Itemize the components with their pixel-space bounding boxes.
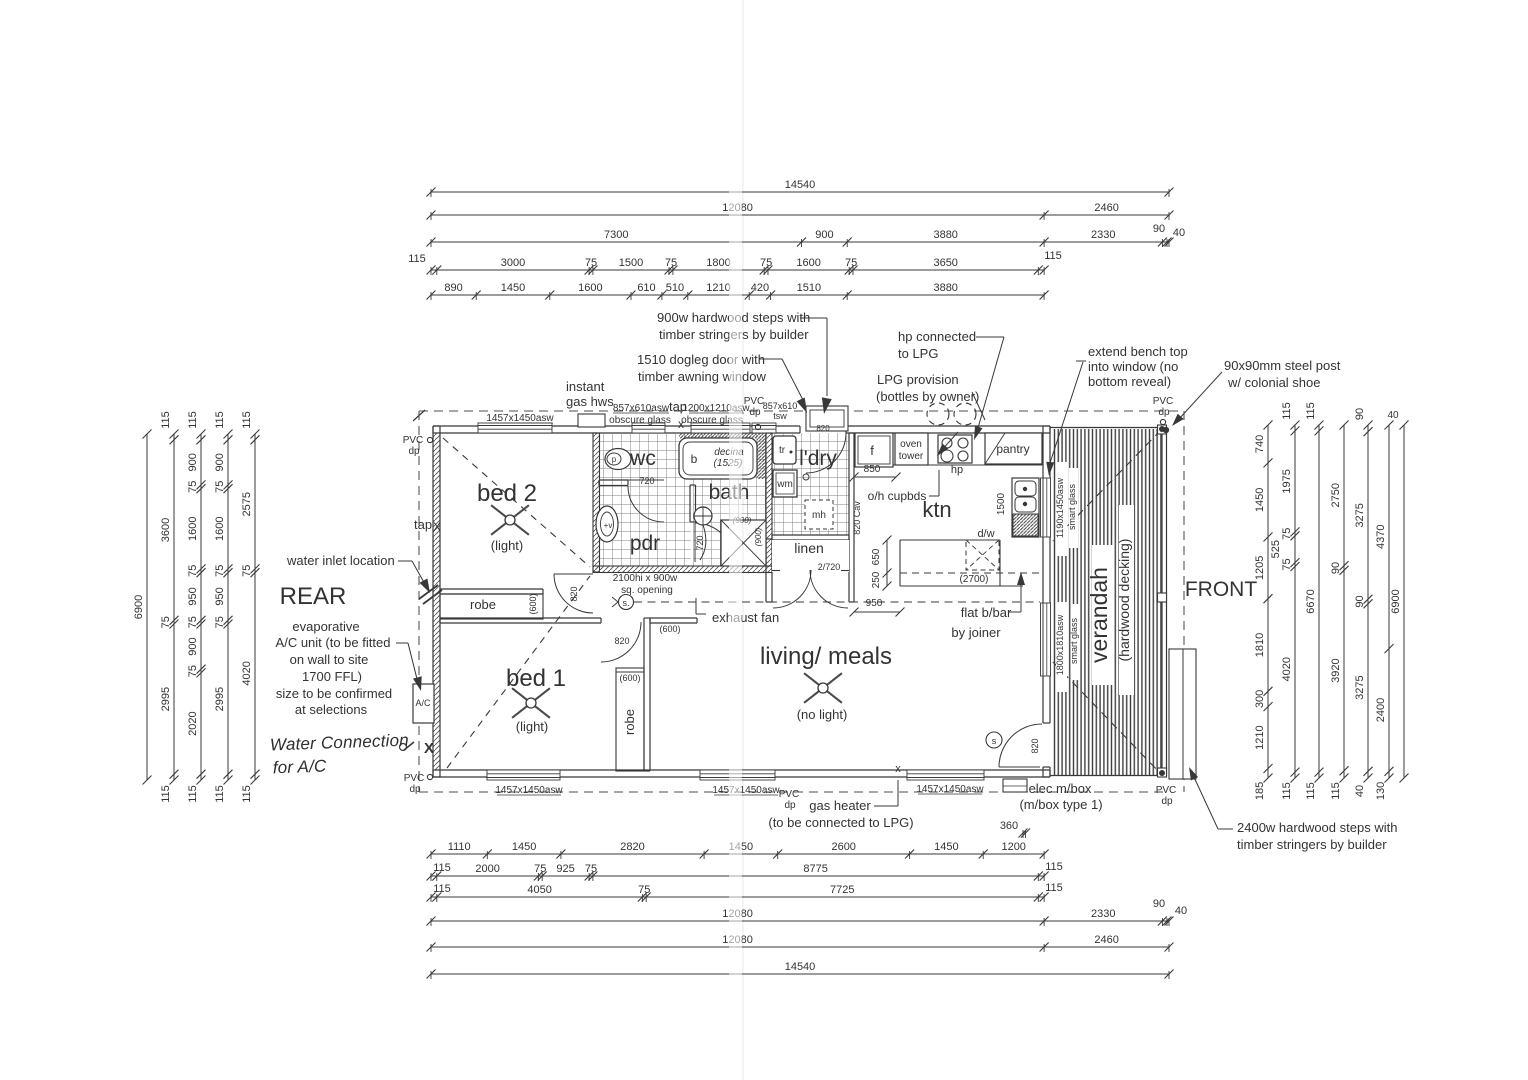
svg-text:14540: 14540 [785, 179, 816, 191]
svg-text:PVC: PVC [403, 435, 424, 446]
svg-text:A/C: A/C [415, 698, 431, 708]
svg-text:40: 40 [1173, 227, 1185, 239]
svg-text:115: 115 [433, 883, 451, 895]
svg-text:PVC: PVC [404, 773, 425, 784]
svg-text:dp: dp [409, 784, 421, 795]
svg-text:75: 75 [1281, 558, 1293, 570]
svg-text:890: 890 [444, 282, 462, 294]
svg-text:14540: 14540 [785, 961, 816, 973]
svg-text:by joiner: by joiner [951, 625, 1001, 640]
svg-text:x: x [895, 763, 901, 775]
svg-text:950: 950 [866, 598, 883, 609]
svg-text:REAR: REAR [280, 583, 347, 610]
svg-text:1600: 1600 [796, 257, 820, 269]
svg-text:instant: instant [566, 379, 605, 394]
svg-text:3880: 3880 [933, 282, 957, 294]
svg-text:2575: 2575 [241, 492, 253, 516]
svg-text:2460: 2460 [1094, 934, 1118, 946]
svg-text:900: 900 [214, 453, 226, 471]
svg-text:115: 115 [1045, 861, 1063, 873]
svg-text:115: 115 [408, 253, 426, 265]
svg-text:75: 75 [214, 481, 226, 493]
svg-text:gas heater: gas heater [809, 798, 871, 813]
svg-text:3000: 3000 [501, 257, 525, 269]
svg-text:l'dry: l'dry [799, 447, 837, 470]
svg-text:1700 FFL): 1700 FFL) [302, 669, 362, 684]
svg-text:A/C unit (to be fitted: A/C unit (to be fitted [276, 635, 391, 650]
svg-text:75: 75 [241, 565, 253, 577]
svg-text:smart glass: smart glass [1069, 617, 1079, 664]
svg-text:2400: 2400 [1375, 698, 1387, 722]
svg-text:2400w hardwood steps with: 2400w hardwood steps with [1237, 820, 1397, 835]
svg-text:900: 900 [815, 229, 833, 241]
svg-text:75: 75 [187, 616, 199, 628]
svg-text:3920: 3920 [1330, 658, 1342, 682]
svg-text:525: 525 [1270, 540, 1282, 558]
svg-text:510: 510 [666, 282, 684, 294]
svg-text:PVC: PVC [1153, 396, 1174, 407]
svg-text:115: 115 [160, 411, 172, 429]
svg-text:+v: +v [604, 521, 613, 530]
svg-text:to LPG: to LPG [898, 346, 938, 361]
svg-text:dp: dp [749, 407, 761, 418]
svg-text:857x610asw: 857x610asw [613, 403, 670, 414]
svg-text:75: 75 [585, 257, 597, 269]
svg-text:857x610: 857x610 [763, 401, 798, 411]
svg-text:1457x1450asw: 1457x1450asw [486, 413, 554, 424]
svg-text:740: 740 [1254, 435, 1266, 453]
svg-text:75: 75 [187, 665, 199, 677]
svg-text:for A/C: for A/C [272, 756, 327, 777]
svg-text:tower: tower [899, 451, 924, 462]
svg-text:4370: 4370 [1375, 525, 1387, 549]
svg-text:130: 130 [1375, 782, 1387, 800]
svg-text:75: 75 [187, 565, 199, 577]
svg-text:LPG provision: LPG provision [877, 372, 959, 387]
svg-text:115: 115 [1281, 402, 1293, 420]
svg-text:exhaust fan: exhaust fan [712, 610, 779, 625]
svg-text:75: 75 [638, 884, 650, 896]
svg-text:living/ meals: living/ meals [760, 643, 892, 670]
svg-text:820: 820 [569, 586, 579, 601]
svg-text:b: b [691, 452, 698, 466]
svg-text:w/ colonial shoe: w/ colonial shoe [1227, 375, 1321, 390]
svg-text:verandah: verandah [1086, 567, 1112, 663]
svg-text:1450: 1450 [1254, 488, 1266, 512]
svg-text:into window (no: into window (no [1088, 359, 1178, 374]
svg-text:90: 90 [1153, 223, 1165, 235]
svg-text:115: 115 [160, 785, 172, 803]
svg-text:610: 610 [637, 282, 655, 294]
svg-text:8775: 8775 [803, 863, 827, 875]
svg-text:40: 40 [1387, 410, 1399, 421]
svg-text:1457x1450asw: 1457x1450asw [712, 785, 780, 796]
svg-text:sq. opening: sq. opening [621, 585, 673, 596]
svg-text:115: 115 [187, 411, 199, 429]
svg-text:3650: 3650 [933, 257, 957, 269]
svg-text:(600): (600) [659, 624, 680, 634]
svg-text:2820: 2820 [620, 841, 644, 853]
svg-text:90: 90 [1354, 408, 1366, 420]
svg-text:6900: 6900 [1390, 589, 1402, 613]
svg-text:robe: robe [622, 709, 637, 735]
svg-text:115: 115 [187, 785, 199, 803]
svg-text:1810: 1810 [1254, 633, 1266, 657]
svg-text:gas hws: gas hws [566, 394, 614, 409]
svg-text:75: 75 [187, 481, 199, 493]
svg-text:tr: tr [779, 445, 786, 456]
svg-text:X: X [433, 520, 441, 534]
svg-text:900: 900 [187, 637, 199, 655]
svg-text:o/h cupbds: o/h cupbds [868, 489, 927, 503]
svg-text:115: 115 [214, 411, 226, 429]
svg-text:1600: 1600 [187, 517, 199, 541]
svg-text:115: 115 [1281, 782, 1293, 800]
svg-text:90x90mm steel post: 90x90mm steel post [1224, 358, 1341, 373]
svg-text:6900: 6900 [133, 595, 145, 619]
svg-text:4020: 4020 [241, 661, 253, 685]
svg-text:115: 115 [214, 785, 226, 803]
svg-text:2020: 2020 [187, 711, 199, 735]
svg-text:650: 650 [871, 548, 882, 565]
svg-text:820: 820 [614, 636, 629, 646]
svg-text:on wall to site: on wall to site [290, 652, 369, 667]
svg-text:tsw: tsw [773, 411, 787, 421]
svg-text:2/720: 2/720 [818, 562, 841, 572]
svg-text:s.: s. [622, 598, 629, 608]
svg-text:bed 2: bed 2 [477, 480, 537, 507]
svg-text:1205: 1205 [1254, 556, 1266, 580]
svg-text:X: X [424, 740, 434, 757]
svg-text:2995: 2995 [214, 687, 226, 711]
svg-text:ktn: ktn [922, 497, 951, 522]
svg-text:850: 850 [864, 464, 881, 475]
svg-text:75: 75 [214, 565, 226, 577]
svg-text:PVC: PVC [779, 789, 800, 800]
svg-text:75: 75 [845, 257, 857, 269]
svg-text:(light): (light) [491, 538, 524, 553]
svg-text:water inlet location: water inlet location [286, 553, 395, 568]
svg-text:1510 dogleg door with: 1510 dogleg door with [637, 352, 765, 367]
svg-text:size to be confirmed: size to be confirmed [276, 686, 392, 701]
svg-text:1457x1450asw: 1457x1450asw [495, 785, 563, 796]
svg-text:720: 720 [639, 476, 654, 486]
svg-text:dp: dp [408, 446, 420, 457]
svg-text:(bottles by owner): (bottles by owner) [876, 389, 979, 404]
svg-text:820: 820 [816, 424, 830, 433]
svg-text:90: 90 [1354, 595, 1366, 607]
svg-text:115: 115 [1045, 882, 1063, 894]
svg-text:75: 75 [214, 616, 226, 628]
svg-text:90: 90 [1330, 562, 1342, 574]
svg-text:1975: 1975 [1281, 469, 1293, 493]
svg-text:(2700): (2700) [960, 574, 989, 585]
svg-text:3275: 3275 [1354, 675, 1366, 699]
svg-text:1800: 1800 [706, 257, 730, 269]
svg-text:115: 115 [1044, 250, 1062, 262]
svg-text:bottom reveal): bottom reveal) [1088, 374, 1171, 389]
svg-text:2750: 2750 [1330, 483, 1342, 507]
svg-text:oven: oven [900, 439, 922, 450]
svg-text:(light): (light) [516, 719, 549, 734]
svg-text:(to be connected to LPG): (to be connected to LPG) [768, 815, 913, 830]
svg-text:1457x1450asw: 1457x1450asw [916, 784, 984, 795]
svg-text:90: 90 [1153, 898, 1165, 910]
svg-text:115: 115 [1330, 782, 1342, 800]
svg-text:115: 115 [241, 785, 253, 803]
svg-text:185: 185 [1254, 782, 1266, 800]
svg-text:linen: linen [794, 540, 824, 556]
svg-text:wc: wc [629, 447, 656, 470]
svg-text:820 Cav: 820 Cav [852, 501, 862, 535]
svg-text:s: s [992, 736, 997, 746]
svg-text:smart glass: smart glass [1067, 483, 1077, 530]
svg-text:p: p [612, 455, 617, 464]
svg-text:300: 300 [1254, 690, 1266, 708]
svg-text:at selections: at selections [295, 702, 368, 717]
svg-text:250: 250 [871, 571, 882, 588]
svg-text:75: 75 [585, 863, 597, 875]
svg-text:bed 1: bed 1 [506, 665, 566, 692]
svg-text:2330: 2330 [1091, 229, 1115, 241]
svg-text:dp: dp [784, 800, 796, 811]
svg-text:flat b/bar: flat b/bar [961, 605, 1012, 620]
svg-text:(600): (600) [528, 593, 538, 614]
svg-text:d/w: d/w [977, 528, 994, 540]
svg-text:mh: mh [812, 510, 826, 521]
svg-text:900: 900 [187, 453, 199, 471]
svg-text:950: 950 [187, 587, 199, 605]
svg-text:4020: 4020 [1281, 657, 1293, 681]
svg-text:3600: 3600 [160, 518, 172, 542]
svg-text:1210: 1210 [706, 282, 730, 294]
svg-text:dp: dp [1158, 407, 1170, 418]
svg-text:2460: 2460 [1094, 202, 1118, 214]
svg-text:75: 75 [760, 257, 772, 269]
svg-text:2100hi x 900w: 2100hi x 900w [613, 573, 678, 584]
svg-text:f: f [870, 443, 874, 458]
svg-text:timber stringers by builder: timber stringers by builder [1237, 837, 1387, 852]
svg-text:925: 925 [556, 863, 574, 875]
svg-text:1800x1810asw: 1800x1810asw [1055, 614, 1065, 675]
svg-text:evaporative: evaporative [292, 619, 359, 634]
svg-text:pdr: pdr [630, 532, 660, 555]
svg-text:1500: 1500 [619, 257, 643, 269]
svg-text:40: 40 [1175, 905, 1187, 917]
svg-text:1190x1450asw: 1190x1450asw [1055, 478, 1065, 538]
svg-text:PVC: PVC [1156, 785, 1177, 796]
svg-text:elec m/box: elec m/box [1029, 781, 1092, 796]
svg-text:tap: tap [414, 517, 432, 532]
svg-text:1600: 1600 [214, 517, 226, 541]
svg-text:1110: 1110 [448, 841, 471, 853]
svg-text:hp connected: hp connected [898, 329, 976, 344]
svg-text:1210: 1210 [1254, 725, 1266, 749]
svg-text:2330: 2330 [1091, 908, 1115, 920]
svg-text:2000: 2000 [475, 863, 499, 875]
svg-text:(no light): (no light) [797, 707, 848, 722]
svg-text:820: 820 [1030, 738, 1040, 753]
svg-text:1450: 1450 [512, 841, 536, 853]
svg-text:1510: 1510 [797, 282, 821, 294]
svg-text:115: 115 [1305, 402, 1317, 420]
svg-text:timber awning window: timber awning window [638, 369, 767, 384]
svg-text:pantry: pantry [996, 442, 1029, 456]
svg-text:wm: wm [776, 479, 793, 490]
svg-text:115: 115 [1305, 782, 1317, 800]
svg-text:2995: 2995 [160, 687, 172, 711]
svg-text:1200: 1200 [1001, 841, 1025, 853]
svg-text:robe: robe [470, 597, 496, 612]
svg-text:420: 420 [751, 282, 769, 294]
svg-text:(600): (600) [619, 673, 640, 683]
svg-text:1450: 1450 [501, 282, 525, 294]
svg-text:75: 75 [1281, 528, 1293, 540]
svg-text:dp: dp [1161, 796, 1173, 807]
svg-text:75: 75 [665, 257, 677, 269]
svg-text:obscure glass: obscure glass [609, 415, 671, 426]
svg-text:6670: 6670 [1305, 589, 1317, 613]
svg-text:hp: hp [951, 464, 963, 476]
svg-text:2600: 2600 [831, 841, 855, 853]
svg-text:1600: 1600 [578, 282, 602, 294]
svg-text:FRONT: FRONT [1185, 578, 1257, 601]
svg-text:(m/box type 1): (m/box type 1) [1019, 797, 1102, 812]
svg-text:1500: 1500 [996, 492, 1007, 515]
svg-text:7725: 7725 [830, 884, 854, 896]
svg-text:(900): (900) [754, 527, 763, 546]
svg-text:360: 360 [1000, 820, 1018, 832]
svg-text:40: 40 [1354, 785, 1366, 797]
svg-text:extend bench top: extend bench top [1088, 344, 1188, 359]
svg-text:115: 115 [433, 862, 451, 874]
svg-text:(hardwood decking): (hardwood decking) [1116, 539, 1132, 662]
svg-text:75: 75 [160, 616, 172, 628]
svg-text:3880: 3880 [933, 229, 957, 241]
svg-text:1450: 1450 [934, 841, 958, 853]
svg-text:115: 115 [241, 411, 253, 429]
svg-text:720: 720 [695, 535, 705, 550]
svg-text:950: 950 [214, 587, 226, 605]
svg-text:7300: 7300 [604, 229, 628, 241]
svg-text:3275: 3275 [1354, 503, 1366, 527]
svg-text:75: 75 [534, 863, 546, 875]
svg-text:4050: 4050 [527, 884, 551, 896]
